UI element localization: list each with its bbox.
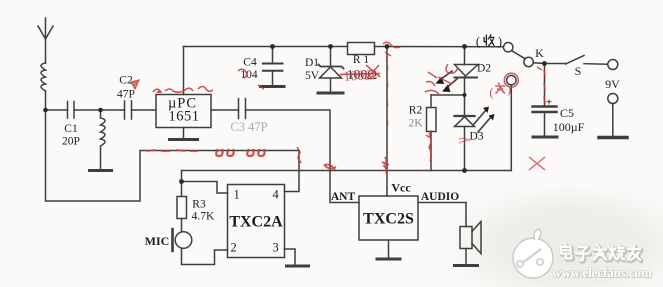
wire speaker to ground [465,249,467,265]
ground below C5 [533,136,557,139]
red mark near C4 ground [258,85,264,89]
svg-text:100µF: 100µF [553,120,585,134]
ground below battery [599,136,627,140]
svg-text:2: 2 [231,241,237,255]
speaker LS1 [460,222,481,254]
junction node K2 [542,61,547,66]
battery top terminal [608,60,618,70]
watermark text www.elecfans.com [552,266,653,281]
wire L1 to node A [45,91,47,110]
svg-text:2K: 2K [408,118,423,130]
ground below L2 [90,169,112,172]
wire C2 to U1 [132,109,157,111]
svg-text:D1: D1 [305,57,319,69]
microphone MIC [173,229,192,251]
svg-text:C1: C1 [64,123,78,135]
svg-text:104: 104 [240,69,258,81]
red mark at ANT junction [324,165,336,170]
node A junction [43,108,48,113]
top rail right of R1 [375,46,504,48]
junction R3 node [179,179,184,184]
wire C1 to node B [74,109,125,111]
wire K contact to node K2 [533,62,544,65]
switch contact K common [524,57,533,66]
zener diode D1 [319,47,344,92]
svg-text:47P: 47P [117,89,135,101]
svg-text:TXC2A: TXC2A [229,214,283,231]
svg-text:1: 1 [234,188,240,202]
red mark on Vcc crossing [382,157,389,174]
svg-text:1651: 1651 [169,109,200,125]
svg-text:C5: C5 [560,106,574,120]
red scribble 00 00 on feedback wire [216,149,264,156]
red pen annotations [131,42,545,174]
svg-text:TXC2S: TXC2S [363,211,414,228]
inductor L2 [101,110,106,169]
red check over C2 [131,80,139,89]
wire U1 top pin to rail [183,47,185,95]
svg-text:C4: C4 [243,57,257,69]
svg-text:(: ( [476,35,480,49]
svg-text:100Ω: 100Ω [343,68,375,85]
ground below U1 [170,128,198,140]
ground below speaker [455,264,478,267]
red scribbles around D2 [425,64,458,94]
wire U2 pin 4 feedback to node A [46,110,300,201]
red mark near D3 bottom [459,138,470,143]
red 发 annotation [489,73,518,99]
watermark logo circle [513,229,553,278]
wire R3 node to U2 pin 1 [182,182,228,194]
op-amp U1 box [156,95,211,128]
svg-text:C2: C2 [119,75,133,87]
switch contact 收 [504,43,513,52]
inductor L1 [41,63,46,91]
node B junction [98,108,103,113]
svg-text:S: S [575,64,582,78]
svg-text:www.elecfans.com: www.elecfans.com [552,266,652,280]
junction D3/lower rail [462,168,467,173]
svg-text:): ) [507,82,511,97]
svg-text:20P: 20P [62,136,80,148]
wire S to battery [584,63,608,65]
red 100 ohm overwrite [340,65,380,85]
junction D2 D3 node [463,93,467,97]
red dashes on K vertical [537,67,545,103]
svg-text:D2: D2 [477,63,491,75]
svg-text:4: 4 [273,188,280,202]
resistor R2 [427,95,437,171]
watermark background patch [455,185,663,287]
svg-text:(: ( [489,85,493,100]
wire node A to C1 [46,109,68,111]
junction D2/rail [462,44,467,49]
svg-text:9V: 9V [605,77,620,91]
svg-text:5V: 5V [305,70,320,82]
svg-text:R3: R3 [192,199,206,211]
capacitor C3 [239,99,246,119]
svg-text:): ) [498,35,502,49]
switch S arm [566,56,585,65]
svg-text:C3 47P: C3 47P [230,120,267,134]
wire D2/D3 node to R2 [431,94,465,96]
svg-text:ANT: ANT [331,191,356,203]
red scribble under R2 [426,133,432,161]
LED D3 [455,95,475,171]
wire U3 AUDIO to speaker [418,203,466,227]
wire 发 contact to lower rail [510,85,512,171]
svg-text:4.7K: 4.7K [192,211,215,223]
wire MIC to U2 pin 2 [182,248,228,264]
svg-text:R 1: R 1 [353,54,370,66]
wire U1 to C3 [211,109,239,111]
IC U3 TXC2S box [359,196,418,240]
battery bottom terminal [608,94,618,104]
svg-text:Vcc: Vcc [391,181,411,195]
wire U3 to ground [388,240,390,258]
svg-text:R2: R2 [409,105,423,117]
wire battery to ground [612,104,614,137]
red mark at feedback corner [297,147,301,163]
ground below C4 [261,85,285,88]
capacitor C4 [263,47,283,86]
capacitor C2 [125,101,132,119]
switch contact 发 [507,76,516,85]
antenna ANT1 [38,18,53,63]
ground below U2 pin 3 [287,265,309,268]
top supply rail [184,46,348,48]
red mark near C4 label [238,69,247,78]
node K1: rail junction to Vcc line [386,47,388,197]
capacitor C1 [68,102,75,119]
LED D2 [455,47,479,96]
D2 receive arrows [436,71,458,92]
switch arm K [512,51,526,59]
red dashes on feedback wire [146,150,198,151]
svg-text:D3: D3 [469,131,483,143]
IC U2 TXC2A box [228,185,285,258]
svg-text:3: 3 [273,241,279,255]
svg-text:AUDIO: AUDIO [421,191,459,203]
ground below U3 [377,258,400,261]
resistor R1 [348,43,375,55]
wire rail corner to R3 node [181,171,183,182]
watermark text 电子发烧友 [561,245,641,261]
ground below D1 [318,92,343,95]
junction D1/rail [328,44,333,49]
wire U2 pin 3 to ground [285,249,296,265]
junction Vcc/rail [385,44,390,49]
wire ANT node to U3 [330,171,359,203]
red dashes along Vcc line [387,62,388,125]
red mark on lower rail right [529,157,545,170]
wire C3 to ANT node [246,110,331,171]
junction C4/rail [270,44,275,49]
lower supply rail [182,170,512,172]
resistor R3 [177,182,187,233]
svg-text:K: K [535,46,544,60]
red marks at rail junction x387 [383,42,400,56]
D3 emission arrows [474,107,495,133]
svg-text:MIC: MIC [145,234,170,248]
red scribble over U1 top [153,87,213,93]
svg-text:+: + [546,97,552,109]
capacitor C5 [533,64,557,136]
wire node K2 to switch S [545,63,567,65]
